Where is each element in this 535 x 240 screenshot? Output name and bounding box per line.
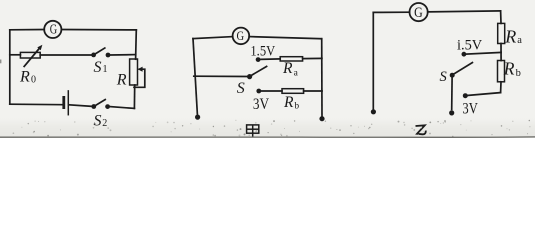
wire: jia right vertical <box>321 39 323 117</box>
svg-text:R: R <box>504 26 516 46</box>
wire: jia top-right horizontal <box>249 37 322 39</box>
wire: slider bracket of R <box>134 69 145 87</box>
scan mark left edge <box>0 60 1 64</box>
wire: left circuit top-left horizontal <box>10 29 44 31</box>
wire: jia 1.5V branch to Ra <box>260 58 280 61</box>
wire: left circuit left vertical <box>9 30 11 104</box>
galvanometer G (left circuit) <box>44 21 61 38</box>
svg-text:R: R <box>282 60 293 77</box>
svg-text:R: R <box>283 94 294 111</box>
node: yi 1.5V terminal <box>462 52 467 57</box>
scan tone band bottom <box>0 0 1 1</box>
switch S2 <box>91 104 96 109</box>
node: jia 3V contact <box>256 89 261 94</box>
wire: jia Rb to right vertical <box>304 90 322 92</box>
svg-text:R: R <box>19 69 30 86</box>
svg-text:b: b <box>294 101 299 111</box>
svg-text:0: 0 <box>31 75 36 86</box>
node: yi 3V terminal <box>463 93 468 98</box>
wire: yi circuit left vertical <box>372 12 374 109</box>
wire: yi 3V branch horizontal <box>468 93 501 96</box>
svg-text:R: R <box>503 58 515 78</box>
rheostat R0 arrow <box>24 47 40 66</box>
resistor Rb (jia) body <box>282 89 304 94</box>
wire: jia 3V branch to Rb <box>261 90 282 92</box>
svg-text:S: S <box>94 113 102 130</box>
battery cell <box>62 97 65 107</box>
svg-text:G: G <box>237 28 245 43</box>
svg-text:1: 1 <box>103 64 108 75</box>
svg-text:a: a <box>517 35 522 46</box>
wire: middle branch right segment to right vertical <box>110 54 136 56</box>
wire: right vertical upper segment <box>135 30 138 59</box>
wire: bottom segment battery to S2 <box>69 105 91 107</box>
galvanometer G (jia) <box>233 28 250 45</box>
rheostat R0 body <box>20 52 40 58</box>
wire: yi switch to bottom terminal <box>451 78 453 110</box>
switch S (yi) <box>450 73 455 78</box>
wire: middle branch between R0 and S1 <box>40 54 91 56</box>
svg-text:1.5V: 1.5V <box>250 44 275 60</box>
node: jia left bottom terminal <box>195 115 200 120</box>
wire: jia top-left horizontal <box>193 37 233 39</box>
wire: bottom right segment <box>110 107 134 109</box>
wire: left circuit top-right horizontal <box>62 29 137 31</box>
svg-text:3V: 3V <box>253 96 270 113</box>
switch S (jia) <box>247 74 252 79</box>
scan noise bottom edge line <box>0 136 535 138</box>
wire: jia circuit left vertical <box>193 39 197 115</box>
svg-text:i.5V: i.5V <box>457 38 482 54</box>
wire: yi right vertical below Rb <box>500 82 502 93</box>
svg-text:b: b <box>516 68 521 79</box>
scan noise bottom band <box>13 120 531 137</box>
wire: yi right vertical between Ra and Rb <box>500 44 502 61</box>
galvanometer G (yi) <box>410 3 428 21</box>
svg-text:3V: 3V <box>462 101 478 118</box>
label: yi character <box>416 125 426 134</box>
wire: yi 1.5V tap <box>466 52 501 54</box>
resistor Ra (jia) body <box>280 57 302 61</box>
svg-text:2: 2 <box>102 118 107 129</box>
label: jia character <box>247 125 259 137</box>
wire: jia Ra to right vertical <box>303 57 322 59</box>
resistor Rb (yi) body <box>498 61 505 82</box>
wire: right vertical lower segment <box>133 85 135 108</box>
svg-text:S: S <box>440 69 448 85</box>
svg-text:S: S <box>94 59 102 76</box>
wire: bottom left segment to battery <box>10 103 63 106</box>
node: yi left bottom terminal <box>371 109 376 114</box>
node: jia right bottom terminal <box>319 116 324 121</box>
wire: yi right vertical top stub <box>500 11 502 24</box>
switch S1 <box>91 53 96 58</box>
svg-text:R: R <box>116 71 127 88</box>
wire: yi top-right horizontal <box>428 11 501 12</box>
resistor Ra (yi) body <box>498 23 505 43</box>
wire: jia switch branch <box>194 75 247 77</box>
node: yi bottom terminal <box>449 110 454 115</box>
resistor R body <box>130 59 138 85</box>
svg-text:G: G <box>50 23 57 38</box>
wire: left circuit middle branch left segment <box>10 54 21 56</box>
node: jia 1.5V contact <box>256 57 261 62</box>
svg-text:S: S <box>237 80 245 97</box>
svg-text:G: G <box>414 5 423 21</box>
wire: yi top-left horizontal <box>373 11 409 13</box>
